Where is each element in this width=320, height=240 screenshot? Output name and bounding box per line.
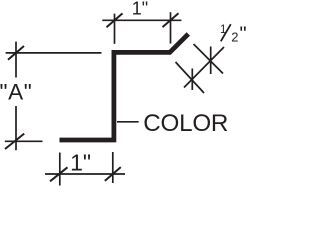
svg-text:1": 1" [70, 149, 91, 175]
svg-text:2: 2 [231, 29, 238, 44]
svg-text:1": 1" [132, 0, 148, 19]
svg-text:1: 1 [220, 24, 226, 36]
svg-text:COLOR: COLOR [143, 110, 228, 137]
svg-text:"A": "A" [0, 79, 32, 104]
svg-text:": " [240, 24, 247, 46]
